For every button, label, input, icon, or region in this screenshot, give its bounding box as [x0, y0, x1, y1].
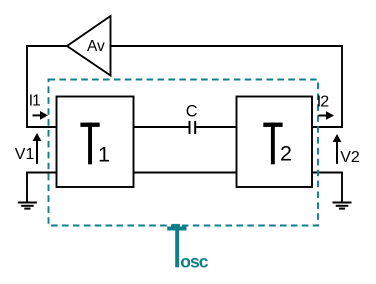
wire: op-amp output across top and down right side to T2	[111, 46, 343, 127]
svg-text:I2: I2	[317, 94, 329, 111]
capacitor C	[190, 121, 196, 134]
wire: T1 bottom-left stub to ground stem	[27, 173, 57, 203]
op-amp Av	[67, 16, 111, 76]
svg-text:osc: osc	[180, 252, 209, 272]
Tosc symbol (teal T)	[167, 224, 186, 267]
svg-text:I1: I1	[29, 92, 40, 109]
ground (right)	[333, 203, 352, 209]
wire: capacitor right plate to T2 input	[196, 126, 236, 128]
ground (left)	[18, 203, 37, 209]
wire: feedback top-left from op-amp input down to T1 input	[27, 46, 67, 127]
svg-text:V2: V2	[340, 149, 360, 166]
wire: T1 output to capacitor left plate	[134, 126, 189, 128]
svg-text:2: 2	[280, 142, 292, 166]
current arrow I1	[33, 111, 49, 120]
wire: T2 bottom-right stub to ground stem	[312, 173, 342, 203]
wire: common bottom rail between T1 and T2	[134, 172, 237, 174]
oscillator boundary (dashed box)	[49, 80, 319, 226]
current arrow I2	[319, 111, 335, 120]
T1 symbol	[80, 123, 99, 165]
voltage arrow V2	[333, 134, 342, 164]
svg-text:C: C	[186, 103, 198, 121]
voltage arrow V1	[33, 133, 42, 164]
T2 symbol	[263, 123, 282, 165]
svg-text:1: 1	[98, 143, 110, 167]
svg-text:V1: V1	[15, 146, 35, 163]
two-port network T2 (box)	[237, 97, 313, 188]
two-port network T1 (box)	[57, 97, 134, 188]
svg-text:Av: Av	[87, 38, 105, 55]
